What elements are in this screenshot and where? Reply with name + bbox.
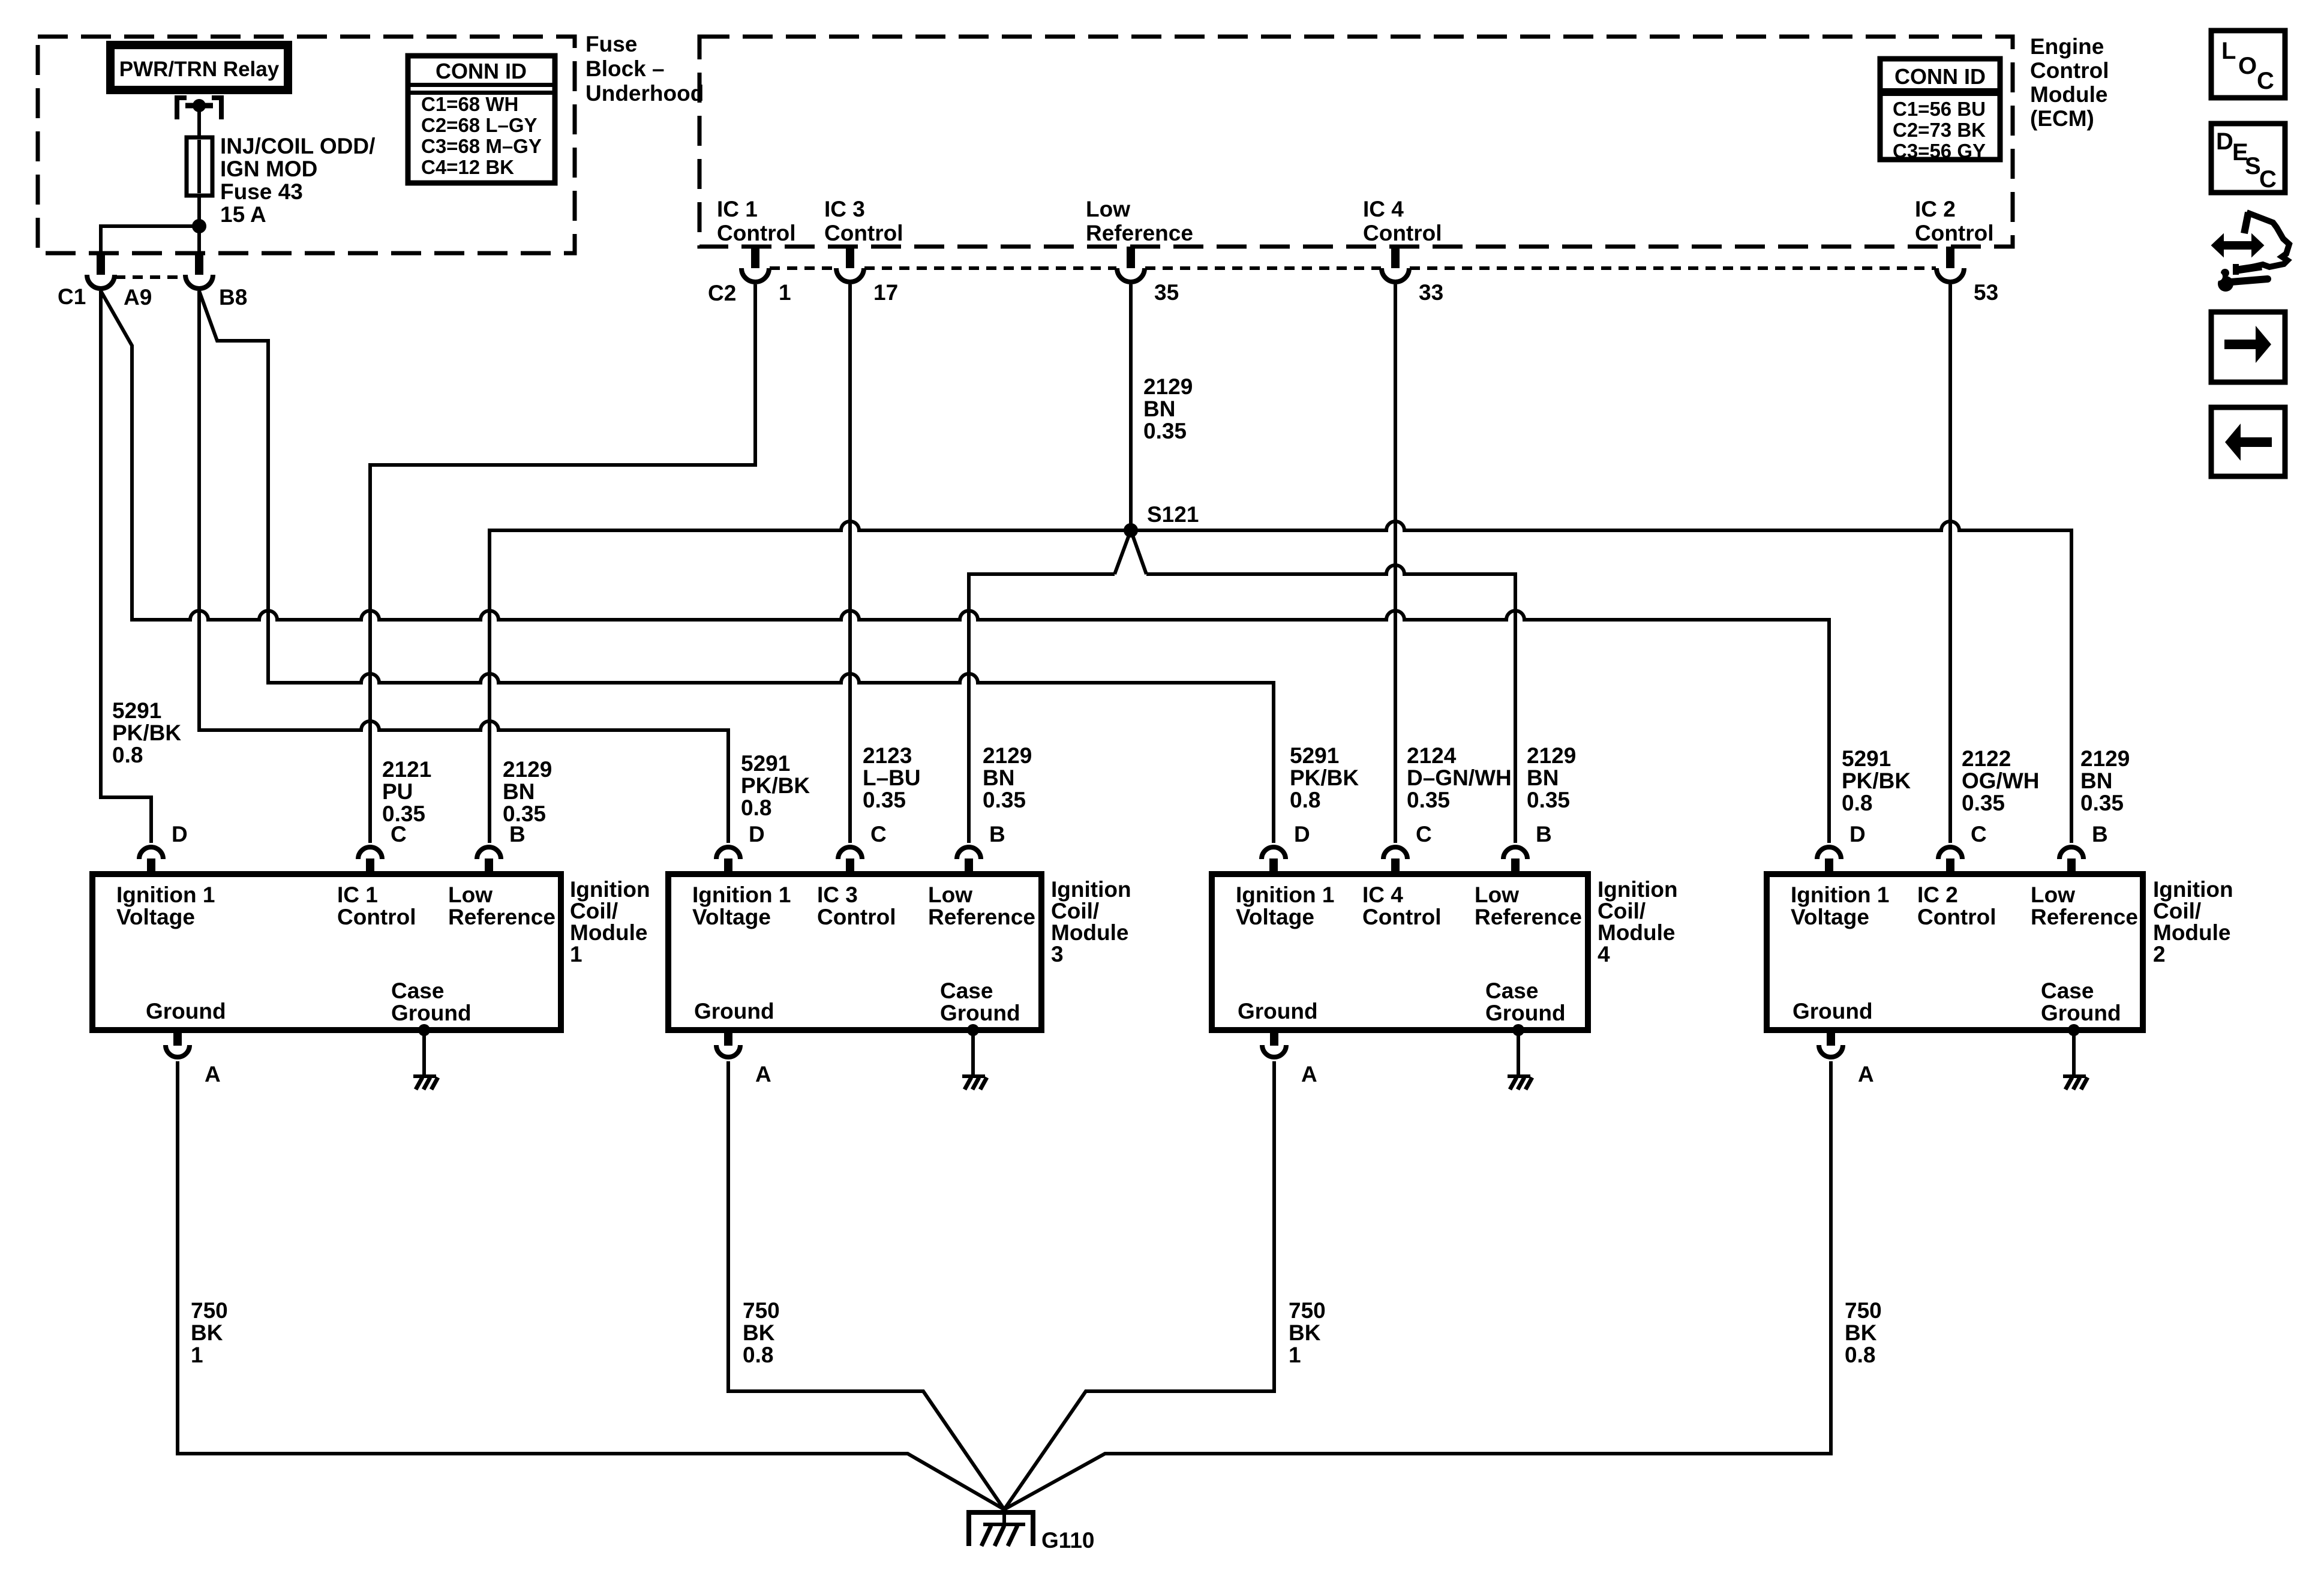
svg-text:Coil/: Coil/ bbox=[570, 899, 618, 923]
icon arrow right bbox=[2224, 340, 2256, 349]
svg-text:750: 750 bbox=[1289, 1298, 1326, 1323]
svg-text:BN: BN bbox=[2080, 769, 2112, 793]
ECM pin 17 terminal cup bbox=[836, 268, 864, 282]
svg-text:(ECM): (ECM) bbox=[2030, 106, 2094, 131]
svg-text:Fuse: Fuse bbox=[585, 32, 637, 56]
svg-text:IC 3: IC 3 bbox=[824, 197, 865, 221]
module 1 pin B stub bbox=[485, 858, 493, 874]
icon wrench double arrow bbox=[2221, 241, 2254, 250]
svg-text:Case: Case bbox=[1485, 978, 1538, 1003]
svg-text:BK: BK bbox=[1845, 1320, 1877, 1345]
engine control module dashed box bbox=[699, 37, 2013, 247]
svg-text:B: B bbox=[509, 822, 526, 846]
svg-text:53: 53 bbox=[1974, 280, 1998, 305]
svg-text:0.35: 0.35 bbox=[1527, 788, 1570, 812]
module 3 pin A cup bbox=[716, 1045, 740, 1057]
svg-text:C: C bbox=[2259, 166, 2277, 193]
svg-text:Reference: Reference bbox=[1475, 905, 1582, 929]
module 3 case ground dot bbox=[967, 1024, 979, 1036]
svg-text:S: S bbox=[2245, 153, 2261, 179]
svg-text:C: C bbox=[1416, 822, 1432, 846]
ECM connector dotted line seg1 bbox=[770, 266, 836, 270]
wire 2129 BN low reference bus: coil1 pin B to coil2 pin B via S121 bbox=[490, 521, 2071, 843]
ECM pin 53 stub bbox=[1946, 247, 1954, 268]
svg-text:750: 750 bbox=[1845, 1298, 1882, 1323]
svg-text:BK: BK bbox=[1289, 1320, 1321, 1345]
svg-text:Ground: Ground bbox=[694, 999, 774, 1023]
svg-text:Module: Module bbox=[2030, 82, 2107, 107]
splice S121 dot bbox=[1124, 523, 1138, 538]
svg-text:0.35: 0.35 bbox=[863, 788, 906, 812]
svg-text:Module: Module bbox=[1598, 920, 1675, 945]
svg-text:Low: Low bbox=[448, 882, 493, 907]
svg-text:C: C bbox=[1971, 822, 1987, 846]
svg-text:2121: 2121 bbox=[382, 757, 431, 782]
svg-text:IC 4: IC 4 bbox=[1362, 882, 1403, 907]
module 4 case ground wire bbox=[1517, 1030, 1520, 1076]
svg-text:Ignition: Ignition bbox=[570, 877, 650, 902]
svg-text:PK/BK: PK/BK bbox=[1290, 766, 1359, 790]
svg-text:Case: Case bbox=[940, 978, 993, 1003]
svg-text:BN: BN bbox=[1527, 766, 1559, 790]
svg-text:1: 1 bbox=[570, 942, 582, 966]
module 2 pin B cup bbox=[2059, 847, 2083, 859]
ECM CONN ID table box bbox=[1880, 59, 2000, 160]
svg-text:CONN ID: CONN ID bbox=[436, 59, 527, 83]
svg-text:B8: B8 bbox=[219, 285, 247, 310]
svg-text:Control: Control bbox=[817, 905, 896, 929]
wire 750 BK: coil 2 ground to G110 bbox=[1004, 1061, 1831, 1509]
module 1 chassis ground symbol bbox=[413, 1074, 436, 1078]
svg-text:0.8: 0.8 bbox=[1842, 791, 1872, 815]
svg-text:2: 2 bbox=[2153, 942, 2166, 966]
svg-text:CONN ID: CONN ID bbox=[1894, 64, 1986, 89]
svg-text:0.35: 0.35 bbox=[1143, 419, 1187, 443]
svg-text:A: A bbox=[1858, 1062, 1874, 1086]
wire fuse to junction bbox=[197, 196, 201, 226]
svg-text:Module: Module bbox=[2153, 920, 2230, 945]
svg-text:Ground: Ground bbox=[1792, 999, 1873, 1023]
svg-text:PK/BK: PK/BK bbox=[1842, 769, 1911, 793]
svg-text:O: O bbox=[2238, 53, 2257, 79]
wire 2129 BN: bus to coil 3 low reference bbox=[969, 574, 1115, 843]
module 1 pin B cup bbox=[477, 847, 501, 859]
svg-text:OG/WH: OG/WH bbox=[1962, 769, 2039, 793]
ECM pin 35 terminal cup bbox=[1117, 268, 1145, 282]
svg-text:C4=12 BK: C4=12 BK bbox=[421, 156, 514, 178]
svg-text:Ground: Ground bbox=[391, 1001, 472, 1025]
svg-text:Control: Control bbox=[1363, 221, 1442, 245]
svg-text:C: C bbox=[870, 822, 887, 846]
wire 2124 D-GN/WH: ECM pin 33 to coil 4 control bbox=[1394, 284, 1397, 843]
svg-text:Voltage: Voltage bbox=[1791, 905, 1869, 929]
svg-text:Control: Control bbox=[1915, 221, 1994, 245]
svg-text:C2: C2 bbox=[708, 281, 736, 305]
module 2 pin C stub bbox=[1946, 858, 1954, 874]
fuse block - underhood dashed box bbox=[38, 37, 575, 253]
wire 750 BK: coil 1 ground to G110 bbox=[178, 1061, 1004, 1509]
ground G110 symbol bbox=[969, 1512, 1033, 1546]
svg-text:PU: PU bbox=[382, 779, 413, 804]
pin B8 stub bbox=[195, 253, 203, 275]
wire 5291 PK/BK: pin A9 branch to coil 2 ignition voltage bbox=[101, 291, 1829, 843]
wire 5291 PK/BK: pin A9 to coil 1 ignition voltage bbox=[101, 291, 151, 843]
svg-text:Reference: Reference bbox=[1086, 221, 1193, 245]
svg-text:Underhood: Underhood bbox=[585, 81, 704, 106]
svg-text:Case: Case bbox=[2041, 978, 2094, 1003]
svg-text:5291: 5291 bbox=[741, 751, 790, 776]
module 2 pin D cup bbox=[1817, 847, 1841, 859]
svg-text:15 A: 15 A bbox=[220, 202, 266, 227]
svg-text:Ignition: Ignition bbox=[2153, 877, 2233, 902]
svg-text:0.8: 0.8 bbox=[741, 795, 771, 820]
module 2 pin C cup bbox=[1938, 847, 1962, 859]
svg-text:C3=56 GY: C3=56 GY bbox=[1893, 140, 1986, 162]
svg-text:Reference: Reference bbox=[2031, 905, 2138, 929]
svg-text:Ignition 1: Ignition 1 bbox=[116, 882, 215, 907]
svg-text:2123: 2123 bbox=[863, 743, 912, 768]
svg-text:C: C bbox=[2257, 68, 2274, 94]
module 1 pin D stub bbox=[147, 858, 155, 874]
module 3 pin D cup bbox=[716, 847, 740, 859]
svg-text:Control: Control bbox=[717, 221, 796, 245]
module 1 case ground wire bbox=[422, 1030, 426, 1076]
svg-text:B: B bbox=[1536, 822, 1552, 846]
module 1 pin C cup bbox=[358, 847, 382, 859]
ignition coil/module 1 box bbox=[92, 874, 561, 1030]
svg-text:INJ/COIL ODD/: INJ/COIL ODD/ bbox=[220, 134, 375, 158]
svg-text:C2=68 L–GY: C2=68 L–GY bbox=[421, 114, 538, 136]
module 2 pin D stub bbox=[1825, 858, 1833, 874]
module 3 pin D stub bbox=[724, 858, 732, 874]
svg-text:Fuse 43: Fuse 43 bbox=[220, 179, 303, 204]
module 4 case ground dot bbox=[1512, 1024, 1524, 1036]
wire 5291 PK/BK: pin B8 to coil 3 ignition voltage bbox=[199, 291, 728, 843]
pin A9 terminal cup bbox=[87, 275, 115, 289]
pin B8 terminal cup bbox=[185, 275, 213, 289]
svg-text:5291: 5291 bbox=[1290, 743, 1339, 768]
wire 2129 BN: bus to coil 4 low reference bbox=[1146, 565, 1515, 843]
svg-text:Voltage: Voltage bbox=[116, 905, 195, 929]
svg-text:IC 3: IC 3 bbox=[817, 882, 858, 907]
svg-text:Case: Case bbox=[391, 978, 444, 1003]
svg-text:L–BU: L–BU bbox=[863, 766, 921, 790]
svg-text:Low: Low bbox=[928, 882, 972, 907]
module 4 pin C stub bbox=[1391, 858, 1400, 874]
svg-text:Control: Control bbox=[2030, 58, 2109, 83]
svg-text:1: 1 bbox=[191, 1343, 203, 1367]
svg-text:0.35: 0.35 bbox=[983, 788, 1026, 812]
svg-text:1: 1 bbox=[779, 280, 791, 305]
svg-text:Ignition: Ignition bbox=[1051, 877, 1131, 902]
svg-text:750: 750 bbox=[743, 1298, 780, 1323]
svg-text:2129: 2129 bbox=[503, 757, 552, 782]
svg-text:C1=56 BU: C1=56 BU bbox=[1893, 98, 1986, 120]
svg-text:0.8: 0.8 bbox=[1290, 788, 1320, 812]
module 3 chassis ground symbol bbox=[962, 1074, 985, 1078]
svg-text:PWR/TRN Relay: PWR/TRN Relay bbox=[119, 58, 280, 81]
module 2 case ground wire bbox=[2072, 1030, 2076, 1076]
svg-text:D: D bbox=[2216, 128, 2233, 155]
pin A9 stub bbox=[97, 253, 105, 275]
S121 left leg diagonal bbox=[1115, 530, 1131, 574]
ignition coil/module 3 box bbox=[668, 874, 1041, 1030]
svg-text:5291: 5291 bbox=[112, 698, 161, 723]
svg-text:A: A bbox=[1301, 1062, 1317, 1086]
svg-text:Low: Low bbox=[1086, 197, 1130, 221]
svg-text:Voltage: Voltage bbox=[1236, 905, 1314, 929]
module 1 pin D cup bbox=[139, 847, 163, 859]
wire 750 BK: coil 3 ground to G110 bbox=[728, 1061, 1004, 1509]
wire junction to pin A9 bbox=[101, 226, 199, 253]
svg-text:Ignition: Ignition bbox=[1598, 877, 1678, 902]
svg-text:0.8: 0.8 bbox=[743, 1343, 773, 1367]
svg-text:BN: BN bbox=[1143, 397, 1175, 421]
wire 2122 OG/WH: ECM pin 53 to coil 2 control bbox=[1948, 284, 1952, 843]
svg-text:IGN MOD: IGN MOD bbox=[220, 157, 317, 181]
icon box DESC bbox=[2211, 124, 2285, 193]
svg-text:BK: BK bbox=[743, 1320, 775, 1345]
wire 2121 PU: ECM pin 1 to coil 1 IC1 control bbox=[370, 284, 755, 843]
ECM pin 1 stub bbox=[751, 247, 759, 268]
relay PWR/TRN Relay box bbox=[110, 45, 288, 90]
module 1 pin A cup bbox=[166, 1045, 190, 1057]
svg-text:C3=68 M–GY: C3=68 M–GY bbox=[421, 135, 542, 157]
ECM pin 1 terminal cup bbox=[741, 268, 769, 282]
svg-text:G110: G110 bbox=[1041, 1528, 1094, 1553]
svg-text:0.35: 0.35 bbox=[1407, 788, 1450, 812]
module 3 pin A stub bbox=[724, 1030, 732, 1046]
svg-text:Ignition 1: Ignition 1 bbox=[692, 882, 791, 907]
svg-text:Voltage: Voltage bbox=[692, 905, 771, 929]
svg-text:A9: A9 bbox=[124, 285, 152, 310]
svg-text:C1=68 WH: C1=68 WH bbox=[421, 93, 518, 115]
svg-text:Module: Module bbox=[570, 920, 647, 945]
svg-text:IC 2: IC 2 bbox=[1915, 197, 1956, 221]
svg-text:Ground: Ground bbox=[146, 999, 226, 1023]
junction dot below fuse bbox=[192, 219, 206, 233]
module 4 pin A cup bbox=[1262, 1045, 1286, 1057]
svg-text:Ground: Ground bbox=[1238, 999, 1318, 1023]
svg-text:C1: C1 bbox=[58, 284, 86, 309]
svg-text:Coil/: Coil/ bbox=[2153, 899, 2201, 923]
svg-text:L: L bbox=[2221, 38, 2236, 64]
module 2 case ground dot bbox=[2068, 1024, 2080, 1036]
svg-text:2129: 2129 bbox=[2080, 746, 2130, 771]
ignition coil/module 4 box bbox=[1212, 874, 1588, 1030]
svg-text:0.8: 0.8 bbox=[1845, 1343, 1875, 1367]
svg-text:A: A bbox=[205, 1062, 221, 1086]
svg-text:2129: 2129 bbox=[983, 743, 1032, 768]
module 4 pin B cup bbox=[1503, 847, 1527, 859]
svg-text:Module: Module bbox=[1051, 920, 1128, 945]
S121 right leg diagonal bbox=[1131, 530, 1146, 574]
wire 750 BK: coil 4 ground to G110 bbox=[1004, 1061, 1274, 1509]
svg-text:Control: Control bbox=[1362, 905, 1442, 929]
wire relay terminal to fuse 43 bbox=[197, 106, 201, 139]
svg-text:750: 750 bbox=[191, 1298, 228, 1323]
svg-text:Coil/: Coil/ bbox=[1598, 899, 1646, 923]
ECM CONN ID divider bbox=[1880, 88, 2000, 96]
svg-text:C: C bbox=[391, 822, 407, 846]
svg-text:D: D bbox=[749, 822, 765, 846]
svg-text:2129: 2129 bbox=[1527, 743, 1576, 768]
relay output terminal bracket bbox=[177, 98, 221, 119]
svg-text:35: 35 bbox=[1154, 280, 1179, 305]
svg-text:1: 1 bbox=[1289, 1343, 1301, 1367]
svg-text:IC 2: IC 2 bbox=[1917, 882, 1958, 907]
svg-text:3: 3 bbox=[1051, 942, 1064, 966]
svg-text:D–GN/WH: D–GN/WH bbox=[1407, 766, 1512, 790]
connector C1 dotted line bbox=[115, 275, 185, 279]
ECM connector dotted line seg4 bbox=[1410, 266, 1936, 270]
module 1 case ground dot bbox=[418, 1024, 430, 1036]
junction dot at relay terminal bbox=[193, 99, 206, 112]
svg-text:BK: BK bbox=[191, 1320, 223, 1345]
svg-text:33: 33 bbox=[1419, 280, 1443, 305]
svg-text:PK/BK: PK/BK bbox=[112, 721, 181, 745]
svg-text:Control: Control bbox=[824, 221, 903, 245]
icon wrench tool bbox=[2231, 279, 2268, 282]
svg-text:IC 1: IC 1 bbox=[717, 197, 758, 221]
module 3 case ground wire bbox=[971, 1030, 975, 1076]
ECM connector dotted line seg2 bbox=[864, 266, 1116, 270]
svg-text:Reference: Reference bbox=[448, 905, 556, 929]
module 2 pin A stub bbox=[1827, 1030, 1835, 1046]
module 4 pin B stub bbox=[1511, 858, 1520, 874]
svg-text:Low: Low bbox=[1475, 882, 1519, 907]
ECM connector dotted line seg3 bbox=[1145, 266, 1381, 270]
svg-text:Ignition 1: Ignition 1 bbox=[1791, 882, 1889, 907]
svg-text:Control: Control bbox=[1917, 905, 1996, 929]
fuse 43 body bbox=[187, 137, 212, 196]
module 2 pin A cup bbox=[1819, 1045, 1843, 1057]
svg-text:D: D bbox=[1849, 822, 1866, 846]
svg-text:Coil/: Coil/ bbox=[1051, 899, 1099, 923]
fuse block CONN ID table box bbox=[408, 56, 555, 183]
icon wrench outline bbox=[2244, 212, 2248, 233]
icon arrow left bbox=[2241, 437, 2272, 447]
wire 2123 L-BU: ECM pin 17 to coil 3 control bbox=[848, 284, 852, 843]
wire inside fuse bbox=[197, 140, 201, 193]
wire 5291 PK/BK: pin B8 branch to coil 4 ignition voltage bbox=[199, 291, 1274, 843]
module 3 pin C cup bbox=[838, 847, 862, 859]
wire 2129 BN: ECM pin 35 to splice S121 bbox=[1129, 284, 1133, 530]
icon box arrow left bbox=[2211, 407, 2285, 476]
module 4 pin C cup bbox=[1383, 847, 1407, 859]
ECM pin 17 stub bbox=[846, 247, 854, 268]
CONN ID table divider bbox=[408, 83, 555, 87]
svg-text:Low: Low bbox=[2031, 882, 2075, 907]
module 4 chassis ground symbol bbox=[1508, 1074, 1530, 1078]
svg-text:S121: S121 bbox=[1147, 502, 1199, 527]
svg-text:0.8: 0.8 bbox=[112, 743, 143, 767]
module 1 pin A stub bbox=[173, 1030, 182, 1046]
svg-text:C2=73 BK: C2=73 BK bbox=[1893, 119, 1986, 141]
module 2 pin B stub bbox=[2067, 858, 2076, 874]
svg-text:D: D bbox=[1294, 822, 1310, 846]
svg-text:2129: 2129 bbox=[1143, 374, 1193, 399]
module 4 pin D cup bbox=[1262, 847, 1286, 859]
svg-text:17: 17 bbox=[873, 280, 898, 305]
svg-text:0.35: 0.35 bbox=[1962, 791, 2005, 815]
module 3 pin B cup bbox=[957, 847, 981, 859]
module 1 pin C stub bbox=[366, 858, 374, 874]
svg-text:IC 4: IC 4 bbox=[1363, 197, 1404, 221]
svg-text:BN: BN bbox=[503, 779, 535, 804]
svg-text:2122: 2122 bbox=[1962, 746, 2011, 771]
svg-text:PK/BK: PK/BK bbox=[741, 773, 810, 798]
svg-text:2124: 2124 bbox=[1407, 743, 1457, 768]
module 4 pin D stub bbox=[1269, 858, 1278, 874]
svg-text:B: B bbox=[2092, 822, 2108, 846]
svg-text:A: A bbox=[755, 1062, 771, 1086]
module 3 pin B stub bbox=[965, 858, 973, 874]
svg-text:Reference: Reference bbox=[928, 905, 1035, 929]
svg-text:B: B bbox=[989, 822, 1005, 846]
module 3 pin C stub bbox=[846, 858, 854, 874]
ignition coil/module 2 box bbox=[1767, 874, 2143, 1030]
icon box arrow right bbox=[2211, 312, 2285, 382]
svg-text:Ignition 1: Ignition 1 bbox=[1236, 882, 1334, 907]
svg-text:4: 4 bbox=[1598, 942, 1610, 966]
svg-text:Ground: Ground bbox=[1485, 1001, 1566, 1025]
svg-text:5291: 5291 bbox=[1842, 746, 1891, 771]
module 2 chassis ground symbol bbox=[2063, 1074, 2086, 1078]
svg-text:Block –: Block – bbox=[585, 56, 665, 81]
svg-text:IC 1: IC 1 bbox=[337, 882, 378, 907]
svg-text:D: D bbox=[172, 822, 188, 846]
ECM pin 33 terminal cup bbox=[1382, 268, 1409, 282]
ECM pin 53 terminal cup bbox=[1936, 268, 1964, 282]
ECM pin 35 stub bbox=[1127, 247, 1135, 268]
icon box LOC bbox=[2211, 31, 2285, 98]
svg-text:BN: BN bbox=[983, 766, 1014, 790]
svg-text:Ground: Ground bbox=[940, 1001, 1020, 1025]
ECM pin 33 stub bbox=[1391, 247, 1400, 268]
svg-text:Ground: Ground bbox=[2041, 1001, 2121, 1025]
svg-text:Engine: Engine bbox=[2030, 34, 2104, 59]
svg-text:Control: Control bbox=[337, 905, 416, 929]
svg-text:0.35: 0.35 bbox=[2080, 791, 2124, 815]
module 4 pin A stub bbox=[1270, 1030, 1278, 1046]
wire junction to pin B8 bbox=[197, 226, 201, 253]
